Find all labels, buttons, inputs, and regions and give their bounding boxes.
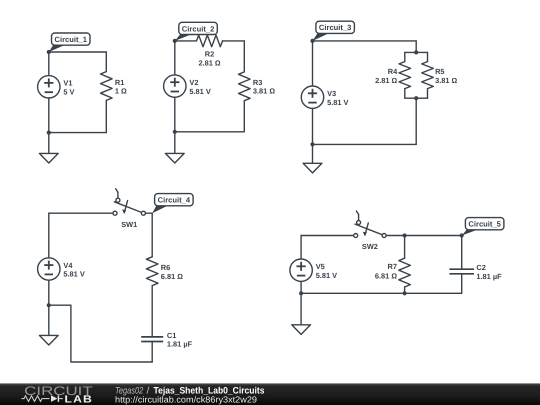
- capacitor C1: [141, 336, 163, 338]
- junction C5 R7 bottom: [403, 291, 407, 295]
- svg-text:1.81 µF: 1.81 µF: [167, 340, 193, 349]
- node Circuit_5 flag: [462, 228, 482, 235]
- svg-text:5.81 V: 5.81 V: [63, 270, 84, 279]
- wire bottom C1: [49, 132, 107, 134]
- svg-text:C2: C2: [476, 263, 485, 272]
- svg-text:C1: C1: [167, 331, 176, 340]
- wire right lower C2: [243, 101, 245, 132]
- junction C1 top-left: [47, 50, 51, 54]
- voltage source V5: [290, 259, 312, 281]
- wire right upper C2: [243, 41, 245, 72]
- ground C2: [165, 153, 184, 163]
- wire right lower C1: [105, 100, 107, 132]
- svg-text:R4: R4: [388, 67, 398, 76]
- svg-text:Circuit_1: Circuit_1: [55, 35, 88, 44]
- wire top C3: [313, 40, 417, 42]
- svg-text:Circuit_5: Circuit_5: [468, 220, 501, 229]
- svg-text:R2: R2: [205, 50, 214, 59]
- wire bottom C3: [313, 143, 417, 145]
- ground C3: [303, 163, 322, 173]
- svg-text:V2: V2: [189, 78, 198, 87]
- wire left lower C1: [48, 98, 50, 133]
- wire parallel top bus C3: [405, 51, 428, 53]
- wire left upper C3: [312, 41, 314, 86]
- switch SW2: [355, 224, 382, 235]
- svg-text:2.81 Ω: 2.81 Ω: [375, 76, 397, 85]
- logo diode: [51, 395, 57, 402]
- junction C3 parallel top: [414, 50, 418, 54]
- capacitor C2: [449, 268, 474, 270]
- junction C2 top-left: [173, 39, 177, 43]
- ground C4: [39, 335, 58, 345]
- switch SW1: [114, 202, 141, 213]
- resistor R4: [399, 62, 411, 89]
- svg-text:R7: R7: [388, 262, 397, 271]
- wire ground stub C1: [48, 133, 50, 154]
- svg-text:R3: R3: [253, 78, 262, 87]
- wire right upper C4: [151, 213, 153, 257]
- junction C5 R7 top: [403, 233, 407, 237]
- svg-text:V1: V1: [63, 79, 72, 88]
- junction C3 top-left: [310, 39, 314, 43]
- wire top-left C4: [49, 212, 113, 214]
- node Circuit_1 flag: [49, 44, 68, 52]
- wire left upper C1: [48, 52, 50, 76]
- svg-text:R6: R6: [161, 263, 170, 272]
- node Circuit_4 flag: [152, 204, 170, 213]
- svg-text:2.81 Ω: 2.81 Ω: [198, 59, 220, 68]
- svg-text:V5: V5: [316, 262, 325, 271]
- wire R4 bottom stub: [404, 89, 406, 99]
- voltage source V2: [164, 75, 186, 97]
- svg-text:6.81 Ω: 6.81 Ω: [161, 272, 183, 281]
- svg-text:5.81 V: 5.81 V: [327, 98, 348, 107]
- resistor R7: [399, 258, 411, 287]
- svg-text:5.81 V: 5.81 V: [316, 271, 337, 280]
- svg-text:Circuit_2: Circuit_2: [182, 24, 215, 33]
- junction C1 bottom-left: [47, 131, 51, 135]
- resistor R2: [197, 35, 223, 47]
- wire left upper C4: [48, 213, 50, 258]
- wire bottom C5: [301, 292, 462, 294]
- wire left lower C2: [174, 97, 176, 132]
- wire left upper C5: [300, 236, 302, 260]
- svg-text:Circuit_3: Circuit_3: [319, 23, 352, 32]
- svg-text:3.81 Ω: 3.81 Ω: [435, 76, 457, 85]
- wire C1 down C4: [151, 342, 153, 363]
- wire switch to corner C4: [145, 212, 152, 214]
- wire bottom C2: [175, 131, 245, 133]
- wire top C1: [49, 51, 107, 53]
- wire switch to C2 branch C5: [386, 235, 462, 237]
- svg-text:1.81 µF: 1.81 µF: [476, 272, 502, 281]
- svg-text:1 Ω: 1 Ω: [115, 87, 127, 96]
- svg-text:http://circuitlab.com/ck86ry3x: http://circuitlab.com/ck86ry3xt2w29: [115, 395, 257, 405]
- wire R6 to C1 C4: [151, 286, 153, 337]
- logo resistor zigzag: [22, 396, 50, 402]
- wire top-right C2: [223, 40, 245, 42]
- junction C5 bottom-left: [299, 291, 303, 295]
- wire right lower C3: [415, 98, 417, 144]
- junction C4 bottom-left: [47, 303, 51, 307]
- svg-text:3.81 Ω: 3.81 Ω: [253, 87, 275, 96]
- svg-text:5.81 V: 5.81 V: [189, 87, 210, 96]
- node Circuit_3 flag: [313, 32, 332, 41]
- resistor R1: [101, 72, 113, 101]
- wire ground stub C4: [48, 305, 50, 335]
- svg-text:LAB: LAB: [65, 394, 94, 405]
- svg-text:6.81 Ω: 6.81 Ω: [375, 272, 397, 281]
- svg-text:Circuit_4: Circuit_4: [158, 196, 191, 205]
- wire C2 top stub: [461, 236, 463, 270]
- ground C1: [39, 153, 58, 163]
- wire ground stub C3: [312, 144, 314, 163]
- wire top-left C5: [301, 235, 354, 237]
- wire right to parallel C3: [415, 41, 417, 53]
- resistor R6: [146, 257, 158, 286]
- wire left lower C5: [300, 281, 302, 293]
- wire left lower C3: [312, 108, 314, 144]
- wire right upper C1: [105, 52, 107, 72]
- junction C3 parallel bottom: [414, 96, 418, 100]
- svg-text:SW2: SW2: [362, 242, 378, 251]
- wire R4 top stub: [404, 52, 406, 61]
- wire left lower C4: [48, 280, 50, 305]
- wire C2 bottom stub: [461, 274, 463, 294]
- wire ground stub C5: [300, 293, 302, 325]
- wire parallel bottom bus C3: [405, 97, 428, 99]
- wire R5 bottom stub: [427, 89, 429, 99]
- svg-text:5 V: 5 V: [63, 88, 74, 97]
- wire top-left C2: [175, 40, 197, 42]
- voltage source V1: [38, 76, 60, 98]
- svg-text:SW1: SW1: [121, 220, 137, 229]
- wire R7 bottom stub: [404, 287, 406, 293]
- wire R5 top stub: [427, 52, 429, 61]
- svg-text:V3: V3: [327, 89, 336, 98]
- wire R7 top stub: [404, 236, 406, 259]
- junction C5 C2 top: [460, 233, 464, 237]
- wire bottom return C4: [49, 305, 152, 362]
- resistor R3: [239, 72, 251, 101]
- svg-text:V4: V4: [63, 261, 73, 270]
- node Circuit_2 flag: [175, 33, 195, 41]
- svg-text:R5: R5: [435, 67, 444, 76]
- voltage source V4: [38, 258, 60, 280]
- junction C3 bottom-left: [310, 142, 314, 146]
- wire left upper C2: [174, 41, 176, 75]
- wire ground stub C2: [174, 132, 176, 154]
- svg-text:R1: R1: [115, 78, 124, 87]
- voltage source V3: [301, 86, 323, 108]
- junction C2 bottom-left: [173, 130, 177, 134]
- resistor R5: [422, 62, 434, 89]
- ground C5: [292, 325, 311, 335]
- footer bar: [0, 383, 540, 405]
